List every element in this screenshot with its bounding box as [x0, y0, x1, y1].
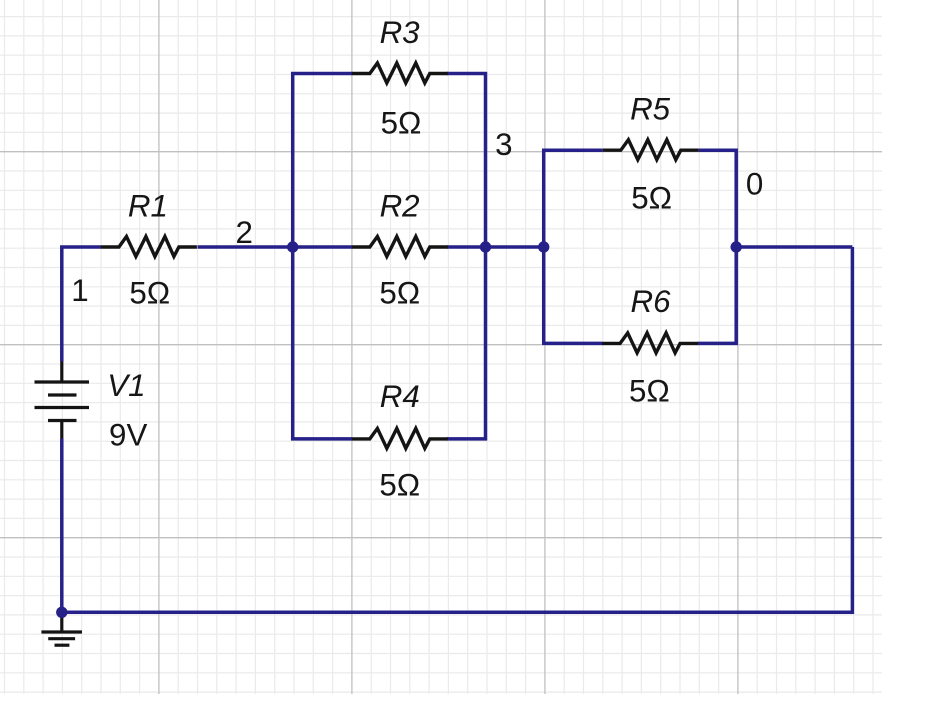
svg-text:2: 2 [235, 215, 252, 250]
node 3 junction left [480, 241, 491, 252]
ground junction [56, 607, 67, 618]
resistor R3 [352, 63, 448, 83]
node 2 junction [287, 241, 298, 252]
resistor R6 [602, 333, 698, 353]
node 0 junction [731, 241, 742, 252]
wire node0: box2 right going right [736, 245, 852, 249]
svg-text:1: 1 [71, 273, 88, 308]
node 3 junction right [538, 241, 549, 252]
svg-text:5Ω: 5Ω [381, 106, 422, 141]
resistor R1 [101, 237, 197, 257]
svg-text:5Ω: 5Ω [629, 373, 670, 408]
ground [60, 612, 63, 632]
resistor R4 [352, 428, 448, 448]
svg-text:R2: R2 [380, 189, 420, 224]
resistor R5 [603, 140, 699, 160]
wire box1 right branch [447, 74, 486, 439]
resistor R2 [352, 237, 448, 257]
svg-text:5Ω: 5Ω [379, 275, 420, 310]
svg-text:3: 3 [495, 127, 512, 162]
svg-text:5Ω: 5Ω [129, 275, 170, 310]
wire node3: R2 right to box2 left [447, 245, 544, 249]
wire battery bottom to ground [60, 439, 64, 613]
svg-text:5Ω: 5Ω [379, 467, 420, 502]
wire node2: R1 right to box1 [198, 245, 353, 249]
svg-text:R4: R4 [380, 379, 420, 414]
svg-text:R1: R1 [128, 189, 168, 224]
wire box2 right branch [698, 150, 736, 343]
svg-text:R6: R6 [630, 284, 671, 319]
battery V1 [60, 362, 63, 383]
svg-text:R5: R5 [630, 91, 671, 126]
svg-text:9V: 9V [109, 418, 147, 453]
wire box1 left branch [293, 74, 352, 439]
wire box2 left branch [544, 150, 603, 343]
svg-text:0: 0 [746, 167, 763, 202]
wire ground bottom rail and right vertical [62, 247, 853, 612]
svg-text:5Ω: 5Ω [631, 181, 672, 216]
svg-text:R3: R3 [380, 15, 421, 50]
svg-text:V1: V1 [107, 368, 145, 403]
wire node1: left vertical + main wire start [62, 247, 101, 362]
